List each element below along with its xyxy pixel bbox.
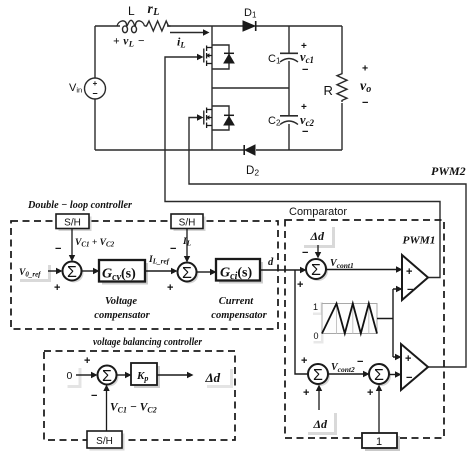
svg-text:Voltage: Voltage	[105, 296, 137, 307]
svg-text:+: +	[303, 387, 309, 399]
svg-text:+: +	[301, 102, 307, 113]
svg-text:Δd: Δd	[205, 370, 221, 385]
svg-text:1: 1	[313, 302, 318, 312]
svg-text:S/H: S/H	[179, 218, 196, 229]
svg-text:Σ: Σ	[67, 264, 77, 281]
svg-text:1: 1	[376, 436, 382, 448]
svg-text:+: +	[54, 282, 60, 294]
svg-text:−: −	[92, 89, 97, 99]
svg-text:−: −	[302, 247, 308, 259]
svg-text:−: −	[302, 64, 308, 76]
svg-text:−: −	[55, 243, 61, 255]
svg-text:L: L	[128, 4, 135, 18]
svg-text:−: −	[170, 243, 176, 255]
svg-text:PWM1: PWM1	[403, 235, 436, 247]
svg-text:+: +	[301, 41, 307, 52]
svg-text:0: 0	[314, 331, 319, 341]
svg-text:−: −	[406, 372, 412, 384]
svg-text:+: +	[367, 387, 373, 399]
svg-text:+: +	[84, 355, 90, 367]
svg-text:Σ: Σ	[182, 265, 192, 282]
svg-text:+: +	[297, 279, 303, 291]
svg-text:−: −	[407, 284, 413, 296]
svg-text:Comparator: Comparator	[289, 206, 347, 218]
svg-text:S/H: S/H	[96, 436, 113, 447]
svg-text:+: +	[362, 63, 368, 75]
svg-text:−: −	[362, 97, 368, 109]
svg-text:Σ: Σ	[313, 367, 323, 384]
svg-text:+: +	[93, 79, 98, 88]
svg-text:Double − loop controller: Double − loop controller	[27, 199, 133, 211]
svg-text:−: −	[91, 390, 97, 402]
svg-text:S/H: S/H	[64, 218, 81, 229]
svg-text:voltage balancing controller: voltage balancing controller	[93, 337, 203, 348]
svg-text:Current: Current	[219, 296, 255, 307]
svg-text:−: −	[357, 356, 363, 368]
svg-text:0: 0	[67, 370, 73, 382]
svg-text:+: +	[167, 282, 173, 294]
svg-text:+: +	[301, 355, 307, 367]
svg-text:Σ: Σ	[102, 368, 112, 385]
svg-text:compensator: compensator	[94, 310, 150, 321]
svg-text:Δd: Δd	[313, 417, 329, 431]
svg-text:R: R	[324, 83, 333, 98]
svg-text:Σ: Σ	[311, 262, 321, 279]
svg-text:Σ: Σ	[374, 367, 384, 384]
svg-text:PWM2: PWM2	[431, 164, 466, 178]
svg-text:+: +	[406, 266, 412, 278]
svg-text:compensator: compensator	[211, 310, 267, 321]
svg-text:Δd: Δd	[310, 229, 326, 243]
svg-text:d: d	[268, 257, 274, 268]
svg-text:D2: D2	[246, 165, 259, 178]
svg-text:−: −	[302, 126, 308, 138]
svg-text:+: +	[405, 353, 411, 365]
